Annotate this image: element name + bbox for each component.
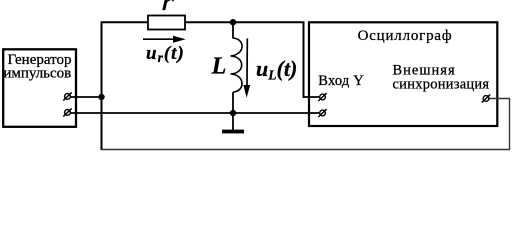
svg-text:Вход Y: Вход Y xyxy=(318,73,364,89)
wire: vertical down to scope input Y xyxy=(303,22,305,99)
svg-text:L: L xyxy=(211,53,227,79)
svg-text:uL(t): uL(t) xyxy=(256,56,297,83)
node: junction dot bottom of L / ground xyxy=(230,110,236,116)
ground xyxy=(222,113,244,133)
arrow for u_L(t) xyxy=(243,39,250,98)
resistor r xyxy=(148,16,185,30)
wire: sync terminal to right rail xyxy=(489,98,510,100)
wire: into scope top input terminal xyxy=(303,96,320,98)
wire: top rail right segment xyxy=(233,21,305,23)
svg-text:импульсов: импульсов xyxy=(3,65,71,81)
svg-text:ur(t): ur(t) xyxy=(146,43,185,65)
node: junction dot top of L xyxy=(230,19,236,25)
svg-text:r: r xyxy=(161,0,175,16)
oscilloscope box U2 xyxy=(309,22,497,126)
terminal: generator bottom xyxy=(63,108,71,116)
terminal: scope input Y bottom xyxy=(318,109,326,117)
terminal: generator top xyxy=(63,92,71,100)
svg-text:синхронизация: синхронизация xyxy=(393,76,490,92)
terminal: scope external sync xyxy=(482,95,490,103)
wire: bottom sync rail xyxy=(102,149,511,151)
wire: generator top terminal to node A xyxy=(70,96,102,98)
svg-text:Осциллограф: Осциллограф xyxy=(358,28,453,44)
inductor L xyxy=(231,22,243,113)
arrow for u_r(t) xyxy=(143,36,186,43)
node A junction dot xyxy=(98,94,104,100)
wire: right vertical sync rail xyxy=(509,99,511,150)
terminal: scope input Y top xyxy=(318,93,326,101)
wire: left vertical (node A up to top rail, down to sync rail) xyxy=(101,22,103,151)
wire: top rail left segment xyxy=(101,21,149,23)
generator box xyxy=(3,49,76,127)
wire: bottom rail from generator to scope xyxy=(70,112,320,114)
wire: top rail middle segment xyxy=(185,21,233,23)
